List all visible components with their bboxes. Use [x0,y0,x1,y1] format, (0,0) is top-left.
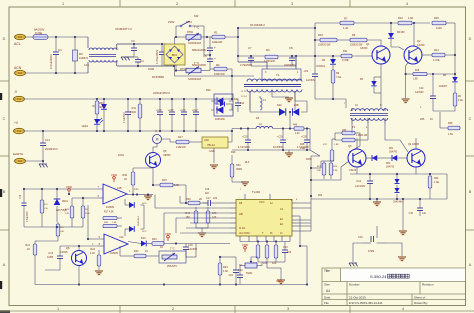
junction [289,111,291,113]
wire [300,245,307,247]
junction [332,98,334,100]
svg-text:C1815: C1815 [60,251,68,254]
node VDD [66,185,73,194]
regulator U02 78L12 [202,137,228,148]
junction [68,193,70,195]
svg-text:Pad: Pad [18,72,23,75]
junction [231,98,233,100]
svg-text:0.47E: 0.47E [433,59,440,62]
wire [185,254,187,258]
junction [171,98,173,100]
wire [213,148,215,163]
ground [277,280,285,284]
inductor L2 [256,126,273,128]
diode D02 dual rectifier [211,94,233,116]
wire [24,188,97,190]
junction [23,188,25,190]
wire [257,265,262,267]
svg-text:5.6K: 5.6K [174,184,179,187]
ground [373,202,381,206]
capacitor C5 [207,44,213,55]
wire [353,243,362,262]
wire [201,70,210,72]
wire [297,219,311,221]
junction [195,130,197,132]
ground [241,182,249,186]
capacitor C8 [289,56,295,66]
resistor R25 [453,93,457,106]
wire [209,68,211,71]
svg-text:120K/1W: 120K/1W [264,59,275,63]
capacitor C4 [125,57,141,66]
junction [369,198,371,200]
wire [160,43,162,45]
svg-text:4N35: 4N35 [306,158,312,161]
svg-text:R20: R20 [206,89,211,92]
wire [232,128,256,130]
svg-text:C3415: C3415 [349,169,357,172]
wire [445,54,455,56]
capacitor C17b [203,200,216,206]
resistor R32 [265,242,269,263]
node VDD [242,243,249,252]
wire [446,174,448,199]
svg-text:0.1uF/50V: 0.1uF/50V [124,112,126,123]
transistor Q3 [348,149,366,167]
potentiometer SVR1 [245,259,257,268]
junction [175,242,177,244]
wire [164,212,230,214]
zener ZD01 [54,189,61,222]
junction [42,130,44,132]
capacitor C22 [233,259,239,285]
svg-text:R18: R18 [300,143,305,146]
wire [124,199,126,205]
svg-text:U1B: U1B [117,187,122,190]
resistor R47 [81,198,85,227]
wire [350,173,447,175]
wire [201,36,212,38]
junction [306,283,308,285]
diode D4B [293,108,300,116]
op-amp U1A [97,184,137,204]
svg-text:A: A [469,263,472,267]
junction [132,193,134,195]
resistor R15c [413,72,427,75]
svg-text:10D471: 10D471 [79,56,89,60]
wire [153,144,157,153]
wire [296,55,315,57]
svg-text:T °C: T °C [194,61,199,65]
wire [164,243,186,245]
ground [144,196,152,200]
svg-text:1.3E: 1.3E [434,181,439,184]
svg-text:0.43E: 0.43E [342,59,349,62]
wire [72,197,97,199]
resistor R30 [230,160,234,182]
svg-text:VDD: VDD [242,243,249,247]
svg-text:EARTH: EARTH [13,152,23,156]
node VDD [111,173,118,182]
wire [147,195,149,197]
wire [351,124,353,133]
svg-text:1K: 1K [124,178,127,181]
svg-text:U02: U02 [204,138,209,142]
wire [288,150,290,153]
svg-text:B: B [3,190,6,194]
svg-text:LM339: LM339 [110,251,118,255]
resistor R12b [398,21,412,25]
svg-text:R28: R28 [448,122,453,125]
junction [402,198,404,200]
svg-text:360R: 360R [236,168,242,171]
wire [297,230,311,232]
wire [190,222,230,224]
resistor R14b [56,222,60,241]
svg-text:ZD2: ZD2 [386,163,391,165]
svg-text:C10: C10 [419,87,424,90]
svg-text:C17: C17 [206,197,211,200]
thermistor RT03 [159,251,186,263]
wire [355,132,360,134]
junction [41,188,43,190]
wire [120,255,134,257]
wire [310,150,320,156]
junction [55,72,57,74]
resistor R44 [194,207,198,228]
wire [412,22,430,24]
svg-text:0.47uF/300V: 0.47uF/300V [49,54,53,69]
svg-text:C13: C13 [48,252,53,255]
wire [231,155,233,160]
inductor LF1 [88,37,174,73]
svg-text:103B: 103B [47,256,53,259]
wire [311,156,320,168]
wire [334,139,336,140]
junction [137,65,139,67]
diode DC3 [125,202,144,208]
wire [117,225,122,227]
svg-text:SW: SW [194,14,199,18]
wire [133,167,153,169]
svg-text:R26: R26 [342,129,347,132]
wire [42,161,44,164]
svg-text:100E/1W: 100E/1W [212,41,223,44]
svg-text:1.9E: 1.9E [413,79,418,81]
svg-text:1B: 1B [239,201,242,205]
svg-text:S-350-24: S-350-24 [370,274,387,279]
svg-text:D: D [469,37,472,41]
svg-text:1K: 1K [145,250,148,253]
junction [419,198,421,200]
svg-text:R22: R22 [318,195,323,197]
wire [380,64,382,108]
svg-text:3: 3 [287,307,289,311]
wire [356,138,358,149]
svg-text:RV: RV [79,52,83,56]
svg-text:3.9K: 3.9K [317,170,322,172]
wire [249,91,251,110]
wire [332,138,335,140]
junction [147,193,149,195]
wire [280,268,282,280]
svg-text:HB: HB [239,212,243,216]
resistor R46 [131,168,135,190]
wire [232,149,310,151]
junction [240,127,242,129]
resistor R15b [160,183,173,187]
chassis ground [39,164,48,167]
wire [413,23,415,46]
wire [321,160,334,162]
resistor R46b [103,224,117,227]
wire [367,40,381,47]
wire [78,266,80,285]
svg-text:R1: R1 [214,31,218,35]
svg-text:M: M [156,138,159,142]
svg-text:Date: Date [324,295,331,299]
wire [154,195,156,209]
svg-text:R21: R21 [25,244,30,247]
transformer T1 [238,56,302,92]
svg-text:100K/1W: 100K/1W [214,72,225,76]
capacitor C1b [22,189,27,227]
wire [162,44,166,50]
wire [87,205,89,239]
svg-text:D02: D02 [234,98,239,101]
junction [275,240,277,242]
resistor R20c [432,21,446,25]
junction [55,36,57,38]
junction [231,130,233,132]
junction [175,69,177,71]
wire [34,262,36,285]
svg-text:+C12: +C12 [192,110,198,112]
capacitor C12 [367,174,373,199]
junction [429,173,431,175]
scan edge marks [0,93,2,100]
wire [433,106,455,111]
svg-text:C21: C21 [229,274,234,277]
svg-text:C1: C1 [58,48,62,52]
junction [247,149,249,151]
wire [35,240,38,242]
wire [237,28,239,62]
svg-text:1.1K: 1.1K [90,252,95,255]
wire [216,202,230,204]
wire [309,129,311,151]
capacitor C15b [417,199,423,216]
svg-text:Revision: Revision [422,283,434,287]
svg-text:R46: R46 [122,174,127,177]
svg-text:Q5: Q5 [163,149,167,153]
junction [159,130,161,132]
varistor RV [73,37,78,73]
svg-text:1uF/50V: 1uF/50V [306,79,315,82]
capacitor C16a [157,99,163,131]
wire [88,238,98,240]
resistor R11a [138,99,142,131]
capacitor C11a [193,99,199,131]
diode D10 [141,241,146,247]
svg-text:C8: C8 [289,46,293,50]
svg-text:1.4K: 1.4K [343,26,349,30]
wire [25,98,232,100]
inductor L1 [254,96,262,110]
junction [396,173,398,175]
svg-text:Drawn By:: Drawn By: [414,301,428,305]
resistor R16 [320,38,337,42]
junction [282,149,284,151]
zone ticks top [119,0,121,7]
svg-text:D4A: D4A [277,104,282,107]
resistor R7 [340,21,354,25]
svg-text:D3 1N5408×2: D3 1N5408×2 [250,24,265,27]
svg-text:FUSE: FUSE [35,31,42,35]
wire [48,36,88,38]
wire [25,130,232,132]
svg-text:1K: 1K [430,118,433,121]
resistor R43 [152,242,164,246]
transistor Q5 [146,153,161,168]
wire [376,226,378,238]
capacitor C10 [430,74,436,111]
node ACN pad [14,70,26,75]
capacitor C19 [304,129,310,151]
resistor R24b [428,174,432,199]
wire [273,128,294,130]
wire [186,243,230,245]
svg-text:VDD: VDD [66,185,73,189]
svg-text:ACL: ACL [14,42,21,46]
svg-text:230V: 230V [168,20,174,24]
node -V pad [13,96,25,101]
wire [297,225,311,227]
svg-text:LED1: LED1 [82,125,89,128]
svg-text:Pad: Pad [18,160,23,163]
wire [261,262,263,266]
wire [200,202,208,204]
junction [127,98,129,100]
fuse F1 [33,35,48,40]
junction [136,193,138,195]
svg-text:C16: C16 [188,244,193,247]
svg-text:+: + [214,46,216,50]
zener ZD5 [394,174,399,184]
svg-text:25K/NTC: 25K/NTC [167,265,177,268]
wire [117,217,122,219]
resistor R17c [330,139,334,161]
wire [119,246,121,256]
diode DC2 [125,226,144,232]
svg-text:2W1M/1KV: 2W1M/1KV [45,148,58,151]
wire [335,133,342,140]
node VDD [165,232,172,241]
wire [386,243,402,256]
svg-text:R15: R15 [162,179,167,182]
transistor Q2 [404,46,422,64]
svg-text:R23: R23 [223,266,228,269]
junction [209,54,211,56]
svg-text:C6: C6 [203,54,207,58]
wire [314,23,316,74]
resistor R01 [95,99,99,119]
wire [289,112,291,129]
svg-text:ZL3: ZL3 [245,161,250,164]
junction [163,283,165,285]
junction [299,245,301,247]
junction [195,98,197,100]
wire [143,205,145,229]
wire [175,65,255,76]
wire [356,167,358,174]
IC U3 TL494 [230,194,297,242]
svg-text:115V: 115V [186,20,192,24]
junction [295,55,297,57]
svg-text:12K: 12K [272,262,277,265]
svg-text:0.47uF/300V: 0.47uF/300V [156,49,159,64]
junction [289,127,291,129]
junction [133,43,135,45]
svg-text:1N4742: 1N4742 [386,167,395,169]
svg-text:1.9E: 1.9E [334,144,339,146]
junction [310,195,312,197]
wire [201,228,203,232]
wire [240,241,290,243]
wire [251,257,258,259]
svg-text:+C16: +C16 [168,110,174,112]
svg-text:RT00: RT00 [187,31,194,34]
wire [349,133,360,152]
svg-text:Pad: Pad [17,98,22,101]
junction [390,22,392,24]
wire [78,246,80,250]
wire [176,70,186,72]
wire [240,265,245,267]
svg-text:C7: C7 [248,46,252,50]
diode D8 [388,23,394,47]
svg-text:5.9K: 5.9K [60,231,65,233]
svg-text:150E/0.5W: 150E/0.5W [318,44,331,47]
junction [314,55,316,57]
svg-text:R2: R2 [216,63,220,67]
svg-text:1.9E/0.1W: 1.9E/0.1W [356,134,368,137]
resistor R28 [448,126,460,130]
svg-text:4.7E/250V: 4.7E/250V [240,63,252,67]
wire [24,226,57,228]
wire [294,91,296,110]
capacitor C20 [280,129,286,151]
wire [185,185,187,203]
wire [209,37,211,44]
svg-text:3: 3 [291,2,293,6]
wire [152,176,154,185]
wire [26,160,43,162]
svg-text:D: D [3,37,6,41]
junction [454,54,456,56]
wire [176,36,186,38]
wire [297,207,311,209]
junction [206,36,208,38]
wire [147,243,152,245]
junction [78,283,80,285]
svg-text:2200uF/35V-6: 2200uF/35V-6 [153,91,170,95]
wire [304,128,310,130]
svg-text:SCR2K218: SCR2K218 [188,77,202,81]
junction [237,36,239,38]
wire [238,55,296,57]
wire [227,69,232,76]
